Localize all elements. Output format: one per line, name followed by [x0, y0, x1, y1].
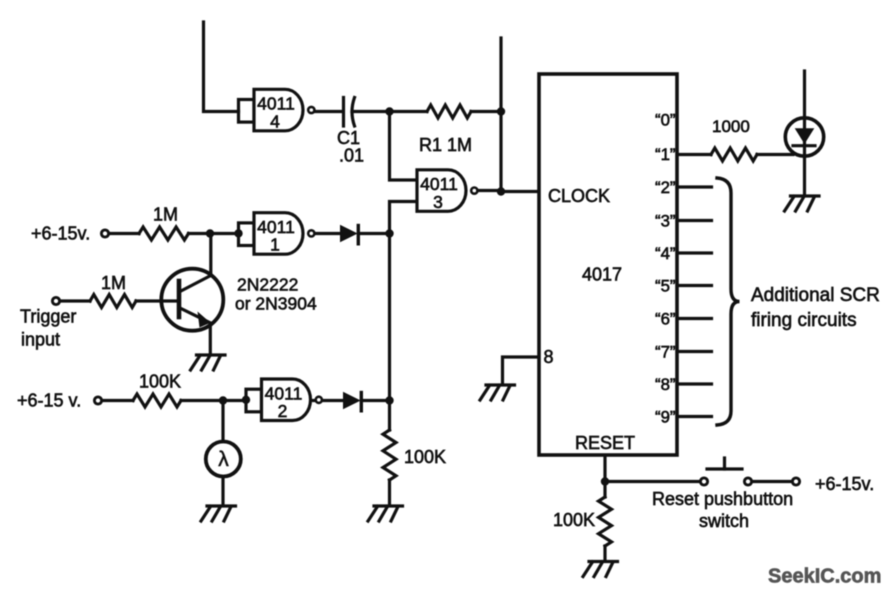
svg-text:“1”: “1”	[655, 145, 676, 164]
svg-text:1M: 1M	[153, 205, 178, 225]
svg-text:4017: 4017	[582, 265, 622, 285]
svg-text:3: 3	[433, 192, 443, 212]
svg-text:CLOCK: CLOCK	[548, 186, 610, 206]
svg-text:R1 1M: R1 1M	[419, 135, 472, 155]
svg-text:100K: 100K	[553, 510, 595, 530]
svg-text:2: 2	[278, 401, 288, 421]
svg-text:“4”: “4”	[655, 244, 676, 263]
svg-text:“3”: “3”	[655, 212, 676, 231]
svg-text:input: input	[21, 330, 60, 350]
svg-text:1M: 1M	[101, 273, 126, 293]
svg-text:“7”: “7”	[655, 343, 676, 362]
svg-text:“2”: “2”	[655, 178, 676, 197]
svg-text:+6-15v.: +6-15v.	[31, 224, 90, 244]
svg-text:Reset pushbutton: Reset pushbutton	[652, 489, 793, 509]
svg-text:“6”: “6”	[655, 310, 676, 329]
svg-text:“9”: “9”	[655, 408, 676, 427]
svg-text:RESET: RESET	[575, 433, 635, 453]
svg-text:“5”: “5”	[655, 277, 676, 296]
svg-text:8: 8	[544, 347, 554, 367]
svg-text:“8”: “8”	[655, 375, 676, 394]
svg-text:2N2222: 2N2222	[237, 275, 298, 295]
svg-text:Trigger: Trigger	[20, 307, 76, 327]
svg-text:SeekIC.com: SeekIC.com	[768, 566, 881, 588]
svg-text:+6-15v.: +6-15v.	[815, 474, 874, 494]
svg-text:λ: λ	[218, 448, 229, 471]
svg-text:firing circuits: firing circuits	[751, 310, 857, 331]
svg-text:1000: 1000	[712, 117, 750, 136]
svg-text:switch: switch	[699, 511, 749, 531]
svg-text:or 2N3904: or 2N3904	[235, 294, 317, 314]
svg-text:+6-15 v.: +6-15 v.	[17, 391, 81, 411]
svg-text:Additional SCR: Additional SCR	[751, 285, 880, 306]
svg-text:100K: 100K	[404, 447, 446, 467]
svg-text:1: 1	[270, 235, 280, 255]
svg-text:4: 4	[270, 111, 280, 131]
svg-text:100K: 100K	[139, 372, 181, 392]
svg-text:.01: .01	[339, 146, 364, 166]
svg-text:“0”: “0”	[655, 111, 676, 130]
